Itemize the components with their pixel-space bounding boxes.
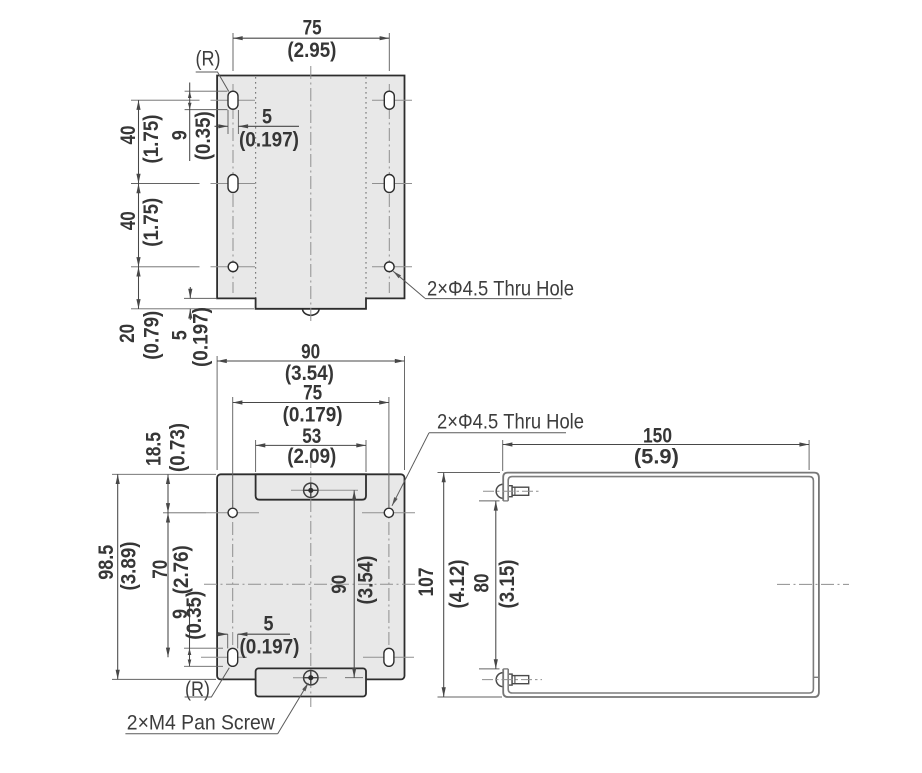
hole column centerline right bbox=[388, 500, 390, 670]
row tick r3 right bbox=[372, 266, 412, 268]
dim 75 top line bbox=[233, 37, 389, 39]
thru hole bottom-right bbox=[385, 262, 395, 272]
svg-text:(0.197): (0.197) bbox=[239, 128, 299, 151]
chain dim 20 (seg3) bbox=[138, 267, 140, 309]
svg-text:5: 5 bbox=[264, 612, 274, 635]
slot hole mid-left bbox=[228, 175, 238, 193]
row tick r3 left bbox=[211, 266, 256, 268]
dim 5 step: extension line bbox=[184, 297, 216, 299]
svg-text:(2.76): (2.76) bbox=[170, 545, 193, 594]
dim 98.5: extension lines bbox=[112, 473, 216, 475]
channel inner outline bbox=[508, 477, 813, 693]
svg-text:75: 75 bbox=[303, 382, 322, 405]
thru hole leader side bbox=[392, 433, 429, 506]
bend line left (dotted) bbox=[255, 77, 257, 298]
svg-text:(4.12): (4.12) bbox=[446, 560, 469, 609]
row tick r2 left bbox=[211, 183, 256, 185]
horizontal centerline bbox=[777, 583, 849, 585]
flange tip caps bbox=[503, 500, 508, 502]
dim 107 line bbox=[443, 473, 445, 698]
horizontal centerline bbox=[204, 583, 429, 585]
hole tick right bbox=[362, 512, 415, 514]
svg-text:(2.95): (2.95) bbox=[287, 39, 336, 62]
(R) leader bottom bbox=[185, 668, 230, 697]
dim 75 top: extension lines bbox=[232, 33, 234, 71]
dim 80 line bbox=[495, 501, 497, 669]
svg-text:2×M4 Pan Screw: 2×M4 Pan Screw bbox=[127, 710, 275, 734]
svg-text:2×Φ4.5 Thru Hole: 2×Φ4.5 Thru Hole bbox=[427, 276, 574, 300]
svg-text:(0.197): (0.197) bbox=[190, 307, 213, 367]
hole column centerline right bbox=[388, 84, 390, 293]
flange fill bands bbox=[504, 481, 508, 501]
(R) leader top bbox=[196, 72, 229, 92]
svg-text:107: 107 bbox=[415, 568, 438, 597]
row tick r2 right bbox=[372, 183, 412, 185]
seam tick bbox=[813, 676, 819, 678]
svg-text:70: 70 bbox=[149, 560, 172, 579]
dim 70 line bbox=[167, 513, 169, 658]
bottom screw tick bbox=[293, 677, 327, 679]
thru hole bottom-left bbox=[228, 262, 238, 272]
svg-text:(3.15): (3.15) bbox=[496, 560, 519, 609]
svg-text:20: 20 bbox=[116, 324, 139, 343]
svg-text:(0.35): (0.35) bbox=[183, 591, 206, 640]
dim 9 line + inside arrows bbox=[189, 83, 191, 162]
top plate outline bbox=[217, 76, 404, 309]
svg-text:5: 5 bbox=[169, 330, 192, 340]
svg-text:90: 90 bbox=[328, 575, 351, 594]
svg-text:80: 80 bbox=[471, 574, 494, 593]
bend line right (dotted) bbox=[365, 77, 367, 298]
top screw centerline bbox=[483, 490, 541, 492]
dim 5 step arrows (outside) bbox=[189, 287, 191, 298]
dim 5 arrows (outside) bbox=[215, 125, 229, 127]
svg-text:18.5: 18.5 bbox=[142, 432, 165, 466]
svg-text:40: 40 bbox=[117, 126, 140, 145]
dim 5 arrows (outside) bbox=[217, 633, 228, 635]
thru hole left bbox=[228, 508, 237, 517]
left chain dim 40/40/20 extension lines bbox=[131, 99, 200, 101]
dim 150: extension lines bbox=[502, 440, 504, 471]
dim 5 slot width: extension lines bbox=[227, 634, 229, 648]
svg-text:5: 5 bbox=[262, 106, 272, 129]
vertical centerline bbox=[310, 455, 312, 707]
dim 80: extension lines bbox=[479, 500, 500, 502]
dim 9 line + inside arrows bbox=[189, 603, 191, 667]
svg-text:(3.54): (3.54) bbox=[355, 556, 378, 605]
dim 53 line bbox=[256, 444, 366, 446]
dim 98.5 line bbox=[117, 474, 119, 679]
svg-text:(1.75): (1.75) bbox=[140, 115, 163, 164]
vertical centerline bbox=[310, 66, 312, 322]
dim 9 slot: extension lines bbox=[184, 647, 223, 649]
slot hole top-left bbox=[228, 91, 238, 109]
chain dim 40 (seg1) bbox=[138, 100, 140, 183]
bottom pan screw bbox=[304, 671, 318, 685]
slot hole mid-right bbox=[384, 175, 394, 193]
dim 18.5: extension line bbox=[163, 512, 206, 514]
hole column centerline left bbox=[232, 500, 234, 670]
row tick r1 right bbox=[372, 99, 412, 101]
bottom screw collar bbox=[508, 674, 512, 685]
dim 5 slot width: extension lines bbox=[227, 110, 229, 134]
svg-text:75: 75 bbox=[303, 16, 322, 39]
dim 18.5 line bbox=[167, 474, 169, 513]
svg-text:150: 150 bbox=[643, 424, 672, 447]
channel outer outline bbox=[503, 473, 819, 697]
hole tick left bbox=[206, 512, 259, 514]
bottom screw shaft bbox=[512, 676, 529, 684]
slot tick left bbox=[201, 656, 247, 658]
svg-text:(0.79): (0.79) bbox=[141, 311, 164, 360]
dim 90 top line bbox=[217, 360, 404, 362]
pan screw leader bbox=[278, 683, 309, 734]
svg-text:9: 9 bbox=[169, 130, 192, 140]
svg-text:(0.197): (0.197) bbox=[240, 636, 300, 659]
svg-text:98.5: 98.5 bbox=[95, 544, 118, 579]
chain dim 40 (seg2) bbox=[138, 184, 140, 267]
dim 90 inner line bbox=[353, 490, 355, 677]
dim 53: extension lines bbox=[255, 440, 257, 472]
dim 9 slot: extension lines bbox=[185, 90, 228, 92]
svg-text:2×Φ4.5 Thru Hole: 2×Φ4.5 Thru Hole bbox=[437, 410, 584, 434]
top pan screw (side) dome bbox=[496, 484, 503, 498]
svg-text:(R): (R) bbox=[196, 47, 221, 71]
svg-text:(0.73): (0.73) bbox=[167, 423, 190, 472]
top tab bbox=[256, 474, 366, 499]
bottom tab bbox=[256, 668, 366, 696]
bottom pan screw (side) dome bbox=[496, 673, 503, 687]
dim 107: extension lines bbox=[438, 472, 501, 474]
svg-text:(0.35): (0.35) bbox=[192, 111, 215, 160]
thru hole leader top view bbox=[393, 271, 425, 298]
svg-text:(5.9): (5.9) bbox=[634, 445, 679, 468]
dim 75: extension lines bbox=[232, 397, 234, 508]
front plate outline bbox=[217, 474, 404, 679]
slot hole top-right bbox=[384, 91, 394, 109]
slot hole bottom-left bbox=[228, 648, 238, 666]
svg-text:90: 90 bbox=[301, 341, 320, 364]
dim 90 inner: extension line bbox=[345, 677, 363, 679]
dim 75 line bbox=[233, 402, 389, 404]
bottom screw centerline bbox=[482, 679, 542, 681]
svg-text:(3.89): (3.89) bbox=[118, 542, 141, 591]
svg-text:40: 40 bbox=[117, 211, 140, 230]
thru hole right bbox=[384, 508, 393, 517]
top screw collar bbox=[508, 486, 512, 497]
svg-text:(2.09): (2.09) bbox=[287, 445, 336, 468]
top pan screw bbox=[304, 483, 318, 497]
row tick r1 left bbox=[211, 99, 256, 101]
dim 150 line bbox=[503, 444, 809, 446]
top screw shaft bbox=[512, 487, 529, 495]
svg-text:(1.75): (1.75) bbox=[140, 198, 163, 247]
bottom semicircle tab bbox=[303, 309, 320, 316]
hole column centerline left bbox=[232, 84, 234, 293]
dim 90 top: extension lines bbox=[216, 356, 218, 470]
svg-text:(0.179): (0.179) bbox=[283, 404, 343, 427]
slot hole bottom-right bbox=[384, 648, 394, 666]
slot tick right bbox=[363, 656, 414, 658]
top screw tick bbox=[291, 489, 358, 491]
